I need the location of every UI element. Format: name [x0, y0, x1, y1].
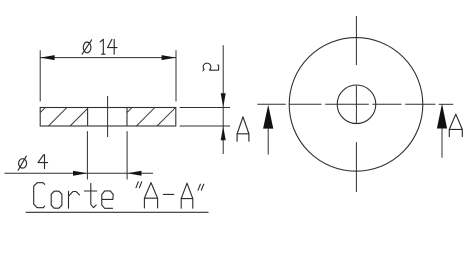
hatch line: [48, 108, 67, 127]
opening quote: [136, 182, 142, 188]
letter A (first): [144, 183, 157, 208]
hatch line: [157, 108, 175, 126]
letter C: [34, 183, 45, 208]
extension line top: [180, 107, 230, 109]
hatch line: [136, 108, 154, 126]
horizontal centerline / section line A-A (dashed center style): [257, 103, 453, 105]
dimension line with outside tails: [5, 172, 128, 174]
arrowhead down (to top ext): [221, 93, 226, 107]
section label A (right side): [449, 114, 462, 136]
hatching left compartment: [41, 108, 176, 127]
letter o: [51, 191, 62, 208]
text "2" rotated 90 CCW: [203, 63, 219, 71]
closing quote: [198, 184, 204, 190]
hatch line (right compartment): [127, 108, 132, 113]
extension line right (hole): [126, 131, 128, 179]
dimension line: [40, 57, 176, 59]
hole right edge line: [126, 108, 128, 127]
hatch line: [41, 108, 46, 113]
centerline of hole (left view): [107, 96, 109, 137]
section label A (left view, right side): [237, 117, 249, 141]
arrowhead left-pointing at hole right edge: [127, 171, 141, 176]
dimension line vertical: [222, 45, 224, 154]
section arrow left: [263, 105, 273, 129]
washer section rectangle outline: [40, 108, 176, 127]
hatch line: [70, 109, 88, 127]
extension line bottom: [180, 125, 230, 127]
text "ø 4": [18, 155, 47, 171]
diameter symbol ø: [19, 159, 27, 168]
vertical centerline (dashed center style): [355, 16, 357, 192]
arrowhead up (to bottom ext): [221, 126, 226, 140]
title underline: [26, 211, 209, 213]
diameter symbol ø: [83, 42, 91, 53]
extension line left (hole): [86, 131, 88, 179]
letter e: [102, 191, 113, 208]
digit 4: [38, 155, 48, 169]
hole left edge line: [87, 108, 89, 127]
arrowhead right of ø14: [162, 55, 176, 60]
hyphen: [163, 193, 173, 195]
letter A (second): [181, 183, 193, 208]
section arrow right: [437, 104, 447, 129]
text "ø 14": [82, 39, 117, 54]
outer circle: [289, 38, 423, 172]
extension line left: [39, 50, 41, 101]
digit 4: [108, 39, 118, 54]
arrowhead right-pointing at hole left edge: [73, 171, 87, 176]
letter t: [85, 183, 97, 207]
hole circle: [337, 85, 376, 124]
extension line right: [175, 50, 177, 101]
letter r: [69, 191, 80, 208]
arrowhead left of ø14: [40, 55, 54, 60]
digit 1: [100, 39, 105, 54]
